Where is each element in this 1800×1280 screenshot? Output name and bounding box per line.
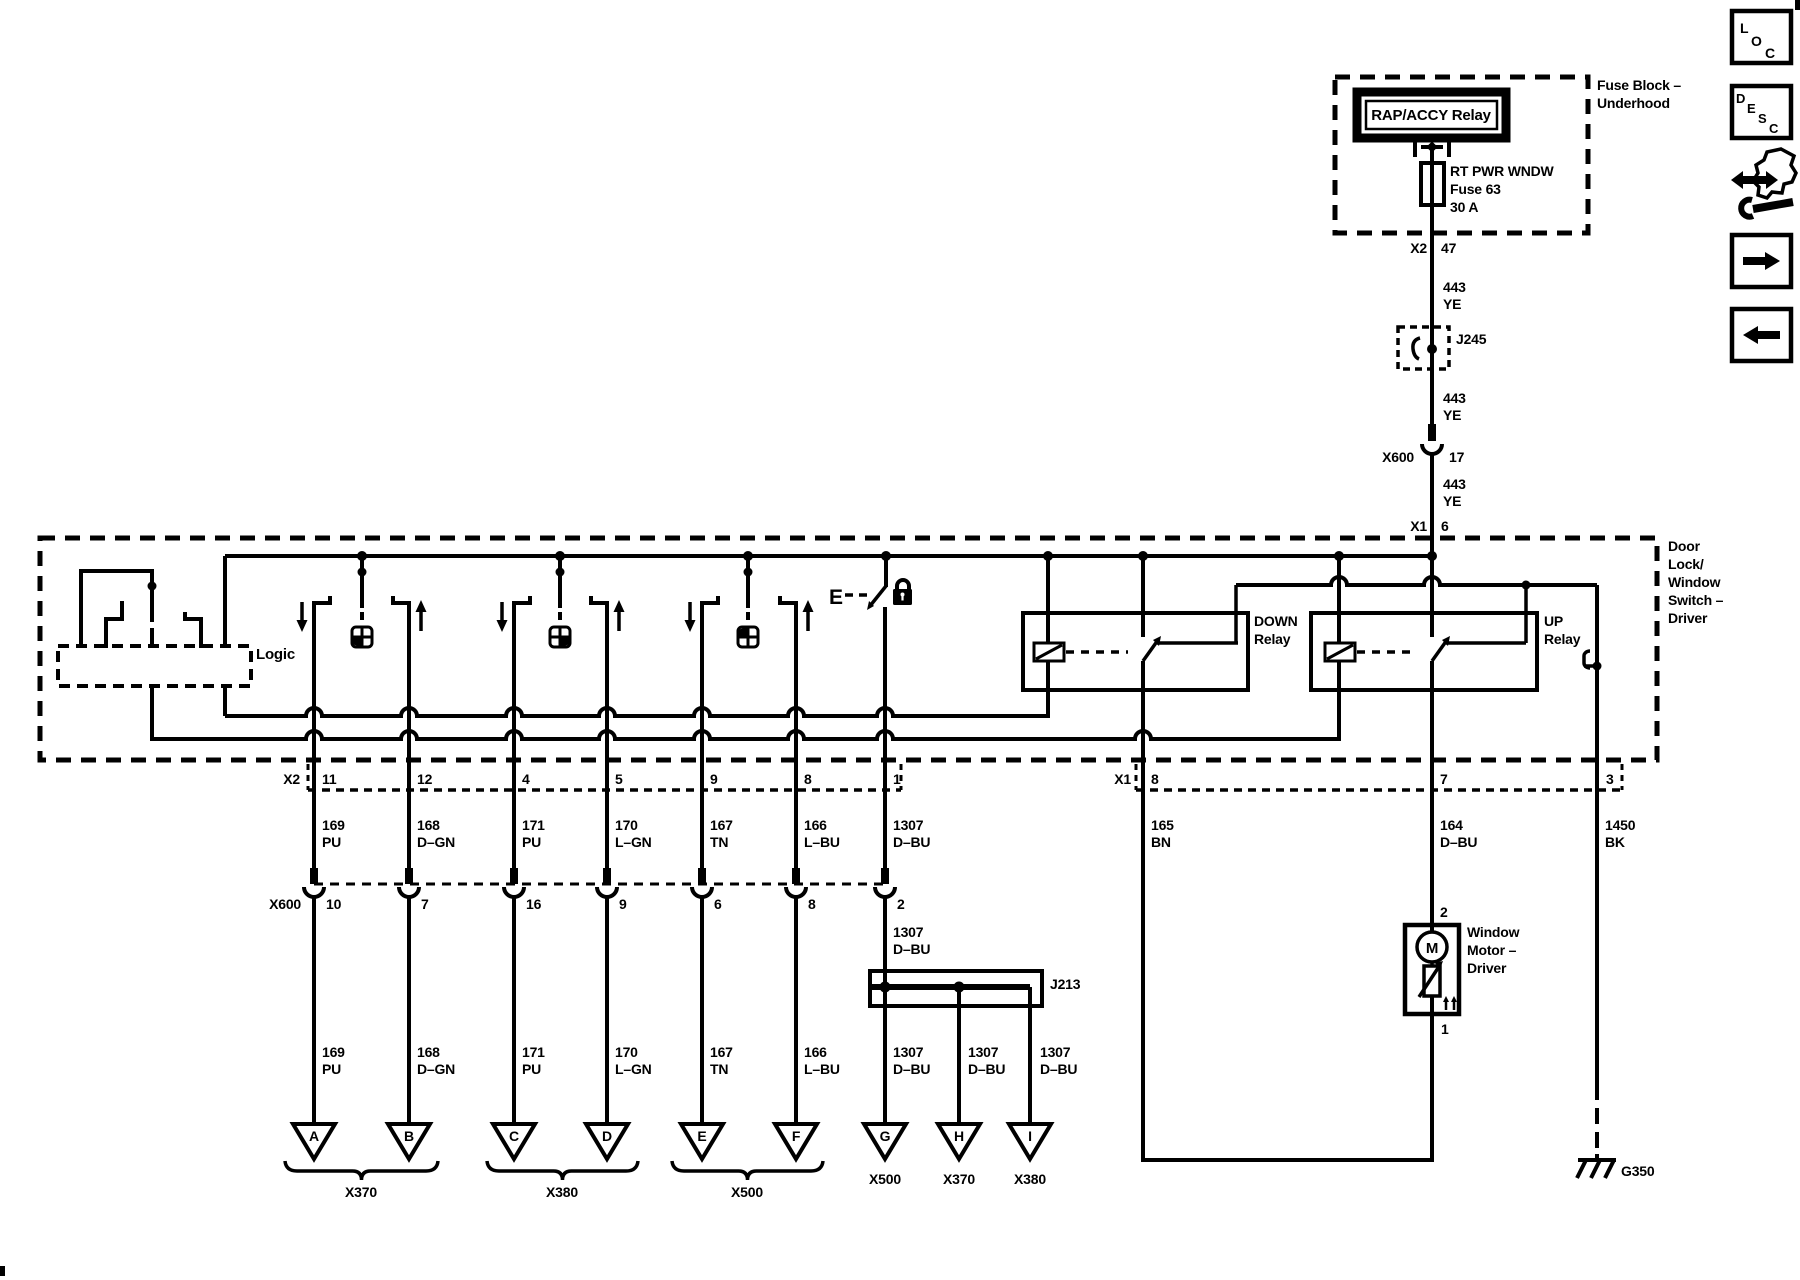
svg-text:167: 167 (710, 1044, 733, 1060)
connector terminal I (1009, 1124, 1051, 1159)
svg-text:Logic: Logic (256, 646, 295, 663)
svg-text:11: 11 (322, 771, 337, 787)
svg-text:Fuse 63: Fuse 63 (1450, 181, 1501, 197)
svg-text:X1: X1 (1410, 518, 1427, 534)
window switch 3 up arrow (803, 600, 814, 631)
svg-text:170: 170 (615, 817, 638, 833)
svg-text:Switch –: Switch – (1668, 592, 1724, 608)
svg-text:YE: YE (1443, 296, 1461, 312)
svg-text:165: 165 (1151, 817, 1174, 833)
svg-text:10: 10 (326, 896, 342, 912)
Door Lock/Window Switch - Driver enclosure (40, 538, 1657, 760)
bus junction nodes (357, 551, 1437, 561)
svg-text:X2: X2 (283, 771, 300, 787)
svg-text:169: 169 (322, 817, 345, 833)
wire UP coil to lower rail (1337, 661, 1341, 741)
svg-text:BN: BN (1151, 834, 1171, 850)
window switch 3 down arrow (685, 602, 696, 632)
svg-text:1307: 1307 (893, 1044, 924, 1060)
window switch 1 window icon (352, 627, 372, 647)
lock switch contact frame (79, 571, 154, 648)
Window Motor - Driver (1405, 925, 1459, 1014)
svg-text:171: 171 (522, 1044, 545, 1060)
connector terminal H (938, 1124, 980, 1159)
svg-text:5: 5 (615, 771, 623, 787)
wire 167 TN label (upper) (710, 817, 733, 850)
svg-text:Motor –: Motor – (1467, 942, 1517, 958)
wire 443 YE label (middle) (1443, 390, 1466, 423)
wire 170 L–GN label (lower) (615, 1044, 652, 1077)
unlock contact (right) (183, 612, 203, 648)
bottom-left page mark (0, 1266, 5, 1276)
wire segment 1307 D-BU into J213 (883, 897, 887, 1124)
fuse RT PWR WNDW Fuse 63 30 A (1421, 163, 1444, 205)
wire segment 171 PU to connector C (512, 897, 516, 1124)
svg-text:X370: X370 (345, 1184, 377, 1200)
connector terminal B (388, 1124, 430, 1159)
wire 1307 D–BU label (upper) (893, 817, 930, 850)
window switch 2 up contact (591, 596, 609, 605)
svg-text:I: I (1028, 1128, 1032, 1144)
wire relay feed down to X1 pin 3 (1595, 585, 1599, 790)
svg-text:D: D (602, 1128, 612, 1144)
Logic label (256, 646, 295, 663)
svg-text:G350: G350 (1621, 1163, 1655, 1179)
UP relay contact arm (1432, 636, 1450, 661)
wire 168 D–GN label (lower) (417, 1044, 455, 1077)
forward arrow button (1732, 235, 1791, 287)
svg-text:L–BU: L–BU (804, 834, 840, 850)
window switch 2 wiper node (556, 568, 565, 577)
svg-text:PU: PU (322, 1061, 341, 1077)
window switch 1 down arrow (297, 602, 308, 632)
brace X370 (285, 1161, 438, 1200)
connector terminal D (586, 1124, 628, 1159)
wire 1307 D-BU label (lower) (1040, 1044, 1077, 1077)
DOWN Relay label (1254, 613, 1298, 647)
svg-text:1: 1 (1441, 1021, 1449, 1037)
wire DOWN relay common to X1 pin 8 (1141, 661, 1145, 790)
svg-text:J213: J213 (1050, 976, 1081, 992)
window switch 1 down contact (312, 596, 330, 605)
wire 167 TN label (lower) (710, 1044, 733, 1077)
svg-text:6: 6 (1441, 518, 1449, 534)
connector X2 pin 47 labels (1410, 240, 1456, 256)
lock contact (left) (104, 601, 124, 648)
X600 pin numbers (326, 896, 905, 912)
svg-text:Window: Window (1467, 924, 1520, 940)
wire 165 BN from X1 pin 8 (1141, 790, 1145, 1162)
lock switch node (148, 582, 157, 591)
svg-text:Driver: Driver (1467, 960, 1507, 976)
svg-text:F: F (792, 1128, 801, 1144)
wire Logic to upper rail (223, 686, 227, 716)
wire bus to UP coil (1337, 556, 1341, 643)
wire segment 169 PU to connector A (312, 897, 316, 1124)
wire 169 PU label (upper) (322, 817, 345, 850)
DOWN Relay box (1023, 613, 1248, 690)
svg-text:PU: PU (522, 1061, 541, 1077)
wire segment X600 to X1 (1430, 454, 1434, 556)
window switch 3 wiper wire (746, 556, 750, 620)
svg-text:6: 6 (714, 896, 722, 912)
svg-text:Relay: Relay (1254, 631, 1291, 647)
connector terminal F (775, 1124, 817, 1159)
wire from relay to fuse (1430, 147, 1434, 163)
UP Relay box (1311, 613, 1537, 690)
wire motor pin 1 return (1430, 1014, 1434, 1162)
svg-text:1307: 1307 (893, 924, 924, 940)
Logic block (58, 646, 251, 686)
svg-text:X600: X600 (269, 896, 301, 912)
svg-text:L: L (1740, 20, 1749, 36)
wire segment 443 YE to J245 (1430, 292, 1434, 349)
connector terminal G (864, 1124, 906, 1159)
window switch 1 wiper node (358, 568, 367, 577)
svg-text:X600: X600 (1382, 449, 1414, 465)
svg-text:8: 8 (804, 771, 812, 787)
connector terminal C (493, 1124, 535, 1159)
svg-text:17: 17 (1449, 449, 1465, 465)
in-line connector X600 row (304, 884, 895, 897)
supply bus inside switch (225, 554, 1432, 558)
fuse label (1450, 163, 1555, 215)
svg-text:YE: YE (1443, 493, 1461, 509)
svg-text:169: 169 (322, 1044, 345, 1060)
express switch label E (829, 586, 843, 609)
DOWN relay coil (1034, 643, 1064, 661)
wire switch 2 down contact to X2 pin 4 (512, 603, 516, 790)
window switch 2 window icon (550, 627, 570, 647)
svg-text:7: 7 (1440, 771, 1448, 787)
window switch 1 up arrow (416, 600, 427, 631)
DOWN relay NC contact to feed (1157, 585, 1238, 643)
svg-text:UP: UP (1544, 613, 1563, 629)
connector terminal E (681, 1124, 723, 1159)
ground G350 (1577, 1160, 1616, 1178)
window switch 3 down contact (700, 596, 718, 605)
wire switch 1 down contact to X2 pin 11 (312, 603, 316, 790)
window switch 3 up contact (780, 596, 798, 605)
svg-text:TN: TN (710, 1061, 728, 1077)
connector terminal A (293, 1124, 335, 1159)
wire segment 1307 D–BU to X600 (883, 790, 887, 884)
svg-text:M: M (1426, 940, 1438, 957)
motor pin 2 label (1440, 904, 1448, 920)
wire 165 BN label (1151, 817, 1174, 850)
svg-text:E: E (697, 1128, 706, 1144)
window switch 3 wiper node (744, 568, 753, 577)
relay output terminal (1415, 140, 1449, 157)
svg-text:443: 443 (1443, 390, 1466, 406)
window switch 1 wiper wire (360, 556, 364, 620)
wire segment 167 TN to connector E (700, 897, 704, 1124)
svg-text:L–GN: L–GN (615, 834, 652, 850)
page corner mark (1795, 0, 1800, 10)
svg-text:D–GN: D–GN (417, 834, 455, 850)
svg-text:E: E (1747, 101, 1756, 116)
window switch 3 window icon (738, 627, 758, 647)
related-repair wrench icon (1731, 149, 1796, 217)
svg-text:X2: X2 (1410, 240, 1427, 256)
window switch 2 up arrow (614, 600, 625, 631)
svg-text:L–GN: L–GN (615, 1061, 652, 1077)
RAP/ACCY Relay (1357, 92, 1506, 138)
wire 166 L–BU label (upper) (804, 817, 840, 850)
svg-text:J245: J245 (1456, 331, 1487, 347)
svg-text:168: 168 (417, 1044, 440, 1060)
connector X1 row (1114, 764, 1622, 790)
J245 label (1456, 331, 1487, 347)
back arrow button (1732, 309, 1791, 361)
wire switch 2 up contact to X2 pin 5 (605, 603, 609, 790)
svg-text:RT PWR WNDW: RT PWR WNDW (1450, 163, 1555, 179)
wire segment 168 D–GN to connector B (407, 897, 411, 1124)
wire segment 166 L–BU to connector F (794, 897, 798, 1124)
svg-text:1307: 1307 (968, 1044, 999, 1060)
wire J213 to connector I (1028, 987, 1032, 1124)
svg-text:166: 166 (804, 1044, 827, 1060)
svg-text:2: 2 (1440, 904, 1448, 920)
wire segment 169 PU to X600 (312, 790, 316, 884)
wire express switch to X2 pin 1 (883, 607, 887, 790)
wire 1307 D-BU label (lower) (893, 1044, 930, 1077)
wire 1450 BK label (1605, 817, 1636, 850)
brace X500 (672, 1161, 823, 1200)
svg-text:Window: Window (1668, 574, 1721, 590)
svg-text:168: 168 (417, 817, 440, 833)
svg-text:9: 9 (619, 896, 627, 912)
svg-text:166: 166 (804, 817, 827, 833)
svg-text:C: C (1769, 121, 1779, 136)
DOWN relay dashed actuator link (1066, 650, 1128, 654)
wire bus to DOWN relay common (1141, 556, 1145, 637)
upper internal rail (225, 708, 1048, 716)
wire 171 PU label (lower) (522, 1044, 545, 1077)
brace X380 (487, 1161, 638, 1200)
svg-text:D–BU: D–BU (1040, 1061, 1077, 1077)
svg-text:PU: PU (522, 834, 541, 850)
svg-text:171: 171 (522, 817, 545, 833)
svg-text:X380: X380 (546, 1184, 578, 1200)
relay feed line to ground path (1236, 577, 1597, 585)
connector G label X500 (869, 1171, 901, 1187)
svg-text:DOWN: DOWN (1254, 613, 1298, 629)
DESC icon button (1732, 86, 1791, 138)
svg-text:Underhood: Underhood (1597, 95, 1670, 111)
module label (1668, 538, 1724, 626)
svg-text:8: 8 (808, 896, 816, 912)
svg-text:D–BU: D–BU (968, 1061, 1005, 1077)
svg-text:Relay: Relay (1544, 631, 1581, 647)
wire 164 D-BU to motor pin 2 (1430, 790, 1434, 925)
wire J213 to connector H (957, 987, 961, 1124)
connector X1 pin 6 labels (1410, 518, 1449, 534)
connector I label X380 (1014, 1171, 1046, 1187)
svg-text:X380: X380 (1014, 1171, 1046, 1187)
svg-text:443: 443 (1443, 476, 1466, 492)
wire 1450 BK down (1595, 790, 1599, 1100)
svg-text:D–BU: D–BU (893, 941, 930, 957)
svg-text:B: B (404, 1128, 414, 1144)
svg-text:170: 170 (615, 1044, 638, 1060)
wire 1307 D-BU label (lower) (968, 1044, 1005, 1077)
wire bus to DOWN coil (1046, 556, 1050, 643)
svg-text:RAP/ACCY Relay: RAP/ACCY Relay (1371, 107, 1491, 124)
svg-text:G: G (880, 1128, 891, 1144)
LOC icon button (1732, 11, 1791, 63)
wire segment 170 L–GN to connector D (605, 897, 609, 1124)
G350 label (1621, 1163, 1655, 1179)
svg-text:TN: TN (710, 834, 728, 850)
dashed ground lead (1595, 1108, 1599, 1159)
window switch 1 up contact (393, 596, 411, 605)
svg-text:X500: X500 (869, 1171, 901, 1187)
wire switch 1 up contact to X2 pin 12 (407, 603, 411, 790)
wire 166 L–BU label (lower) (804, 1044, 840, 1077)
wire segment 167 TN to X600 (700, 790, 704, 884)
svg-text:X500: X500 (731, 1184, 763, 1200)
wire return run to motor (1141, 1158, 1434, 1162)
J213 junction nodes (880, 982, 965, 993)
X600 row label (269, 896, 301, 912)
svg-text:PU: PU (322, 834, 341, 850)
wire 1307 D-BU label (below X600) (893, 924, 930, 957)
wire 168 D–GN label (upper) (417, 817, 455, 850)
svg-text:S: S (1758, 111, 1767, 126)
svg-text:C: C (509, 1128, 519, 1144)
svg-text:443: 443 (1443, 279, 1466, 295)
svg-text:Driver: Driver (1668, 610, 1708, 626)
case ground tab (1584, 651, 1602, 671)
lock icon (893, 580, 912, 605)
wire 443 YE label (upper) (1443, 279, 1466, 312)
svg-text:8: 8 (1151, 771, 1159, 787)
wire switch 3 down contact to X2 pin 9 (700, 603, 704, 790)
wire segment 168 D–GN to X600 (407, 790, 411, 884)
svg-text:D: D (1736, 91, 1745, 106)
lower internal rail (152, 731, 1339, 739)
wire fuse to X2 connector (1430, 205, 1434, 292)
wire switch 3 up contact to X2 pin 8 (794, 603, 798, 790)
window switch 2 wiper wire (558, 556, 562, 620)
wire 170 L–GN label (upper) (615, 817, 652, 850)
connector X2 row (283, 764, 901, 790)
X2 pin numbers (322, 771, 901, 787)
svg-text:47: 47 (1441, 240, 1457, 256)
wire 171 PU label (upper) (522, 817, 545, 850)
svg-text:1307: 1307 (1040, 1044, 1071, 1060)
svg-text:12: 12 (417, 771, 433, 787)
svg-text:D–BU: D–BU (893, 834, 930, 850)
svg-text:D–GN: D–GN (417, 1061, 455, 1077)
svg-text:BK: BK (1605, 834, 1625, 850)
svg-text:D–BU: D–BU (1440, 834, 1477, 850)
svg-text:O: O (1751, 33, 1762, 49)
Fuse Block label (1597, 77, 1681, 111)
window switch 2 down contact (512, 596, 530, 605)
wire segment 166 L–BU to X600 (794, 790, 798, 884)
svg-text:Door: Door (1668, 538, 1701, 554)
express switch arm (867, 586, 886, 610)
svg-text:E: E (829, 586, 843, 609)
Window Motor label (1467, 924, 1520, 976)
UP relay dashed actuator link (1357, 650, 1417, 654)
feed junction node (1522, 581, 1531, 590)
svg-text:Lock/: Lock/ (1668, 556, 1704, 572)
DOWN relay contact arm (1143, 636, 1161, 661)
svg-text:2: 2 (897, 896, 905, 912)
wire DOWN coil to upper rail (1046, 661, 1050, 718)
svg-text:30 A: 30 A (1450, 199, 1478, 215)
svg-text:H: H (954, 1128, 964, 1144)
svg-text:167: 167 (710, 817, 733, 833)
wire bus to Logic (223, 556, 227, 646)
svg-text:C: C (1765, 45, 1775, 61)
X1 pin numbers (1151, 771, 1614, 787)
J213 label (1050, 976, 1081, 992)
UP Relay label (1544, 613, 1581, 647)
splice J245 (1398, 327, 1449, 369)
svg-text:16: 16 (526, 896, 542, 912)
window switch 2 down arrow (497, 602, 508, 632)
svg-text:164: 164 (1440, 817, 1463, 833)
svg-text:Fuse Block –: Fuse Block – (1597, 77, 1681, 93)
svg-text:L–BU: L–BU (804, 1061, 840, 1077)
in-line connector X600 pin 17 (1382, 444, 1464, 465)
wire segment 170 L–GN to X600 (605, 790, 609, 884)
svg-text:D–BU: D–BU (893, 1061, 930, 1077)
express switch feed wire (884, 556, 888, 587)
svg-text:1307: 1307 (893, 817, 924, 833)
connector H label X370 (943, 1171, 975, 1187)
motor pin 1 label (1441, 1021, 1449, 1037)
express switch dashed link (845, 593, 868, 597)
UP relay NC contact to feed (1446, 587, 1526, 643)
svg-text:7: 7 (421, 896, 429, 912)
svg-text:9: 9 (710, 771, 718, 787)
svg-text:X1: X1 (1114, 771, 1131, 787)
UP relay coil (1325, 643, 1355, 661)
wire bus to UP relay common (1430, 556, 1434, 637)
svg-text:A: A (309, 1128, 319, 1144)
wire Logic to lower rail (150, 686, 154, 741)
wire segment J245 to X600 (1430, 349, 1434, 441)
Fuse Block - Underhood enclosure (1335, 77, 1588, 233)
svg-text:X370: X370 (943, 1171, 975, 1187)
svg-text:1: 1 (893, 771, 901, 787)
wire segment 171 PU to X600 (512, 790, 516, 884)
wire 164 D-BU label (1440, 817, 1477, 850)
svg-text:YE: YE (1443, 407, 1461, 423)
wire 443 YE label (lower) (1443, 476, 1466, 509)
svg-text:1450: 1450 (1605, 817, 1636, 833)
svg-text:3: 3 (1606, 771, 1614, 787)
wire UP relay common to X1 pin 7 (1430, 661, 1434, 790)
splice pack J213 (870, 971, 1042, 1006)
wire 169 PU label (lower) (322, 1044, 345, 1077)
svg-text:4: 4 (522, 771, 530, 787)
lock switch dashed actuator (150, 628, 154, 644)
